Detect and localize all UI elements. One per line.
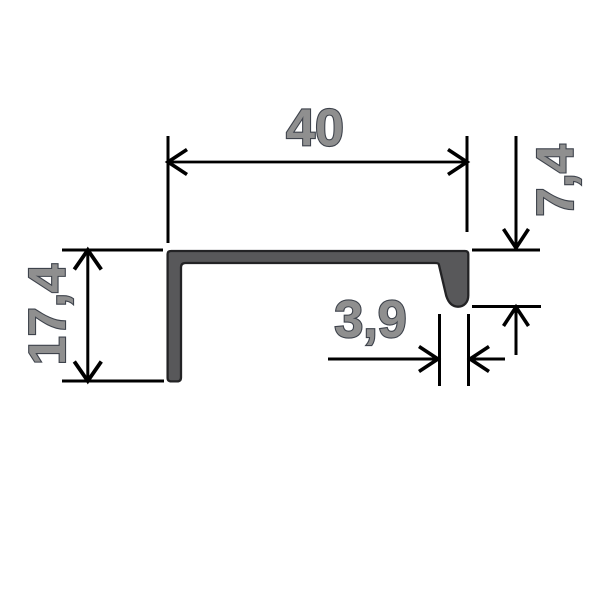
profile cross-section (gray aluminum L-profile with hook): [168, 251, 469, 381]
dimension 3,9: left dimension line with right arrowhead: [328, 358, 438, 361]
dimension 40: right extension line: [466, 136, 469, 232]
dimension 3,9: right dimension line with left arrowhead: [470, 358, 505, 361]
dimension 17,4: bottom arrowhead: [74, 362, 101, 382]
dimension 40: right arrowhead: [448, 150, 467, 175]
dimension 7,4: bottom extension line: [472, 305, 541, 308]
dimension 17,4: bottom extension line: [62, 380, 164, 383]
dimension 7,4: upper dimension line with down arrowhead: [515, 136, 518, 247]
dimension 40: left extension line: [167, 136, 170, 243]
svg-text:7,4: 7,4: [527, 144, 585, 216]
svg-text:3,9: 3,9: [334, 291, 406, 349]
dimension 7,4: top extension line: [472, 249, 540, 252]
dimension 3,9: left extension line: [438, 314, 441, 386]
dimension 7,4: lower dimension line with up arrowhead: [515, 308, 518, 355]
dimension 17,4: dimension line: [86, 250, 89, 381]
dimension 40: left arrowhead: [168, 150, 187, 175]
dimension 17,4: top arrowhead: [74, 250, 101, 270]
dimension 17,4: top extension line: [62, 249, 163, 252]
dimension 40: dimension line: [168, 161, 467, 164]
svg-text:40: 40: [286, 100, 344, 158]
dimension 3,9: right extension line: [467, 314, 470, 386]
svg-text:17,4: 17,4: [19, 264, 77, 365]
